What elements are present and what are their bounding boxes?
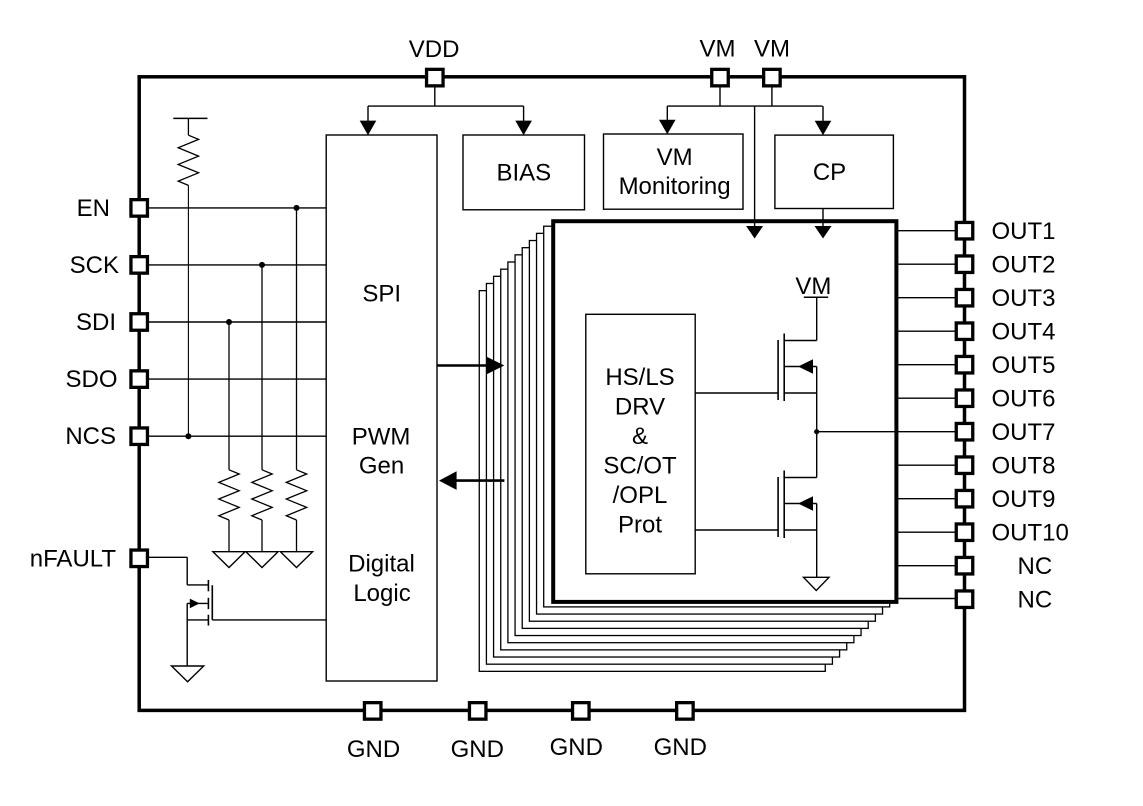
svg-text:SDI: SDI — [76, 309, 116, 336]
svg-text:Prot: Prot — [618, 512, 662, 539]
svg-text:OUT2: OUT2 — [992, 252, 1056, 279]
svg-text:OUT3: OUT3 — [992, 285, 1056, 312]
svg-text:VM: VM — [754, 36, 790, 63]
svg-text:VM: VM — [700, 36, 736, 63]
svg-text:OUT9: OUT9 — [992, 486, 1056, 513]
svg-text:DRV: DRV — [615, 394, 665, 421]
svg-text:Digital: Digital — [348, 550, 415, 577]
svg-text:NC: NC — [1018, 553, 1053, 580]
svg-text:OUT6: OUT6 — [992, 386, 1056, 413]
svg-text:BIAS: BIAS — [496, 159, 551, 186]
svg-text:nFAULT: nFAULT — [30, 545, 117, 572]
svg-text:CP: CP — [813, 159, 846, 186]
svg-text:SPI: SPI — [362, 281, 401, 308]
svg-text:OUT1: OUT1 — [992, 218, 1056, 245]
svg-text:GND: GND — [451, 736, 504, 763]
svg-text:HS/LS: HS/LS — [605, 364, 674, 391]
svg-text:Logic: Logic — [353, 580, 410, 607]
svg-text:OUT4: OUT4 — [992, 319, 1056, 346]
svg-text:SC/OT: SC/OT — [603, 453, 677, 480]
svg-text:VM: VM — [795, 273, 831, 300]
svg-text:EN: EN — [77, 195, 110, 222]
svg-text:OUT8: OUT8 — [992, 453, 1056, 480]
svg-text:NCS: NCS — [65, 423, 116, 450]
svg-text:OUT10: OUT10 — [992, 520, 1069, 547]
svg-text:VM: VM — [657, 144, 693, 171]
svg-text:OUT5: OUT5 — [992, 352, 1056, 379]
svg-text:Gen: Gen — [359, 453, 404, 480]
svg-text:PWM: PWM — [352, 424, 411, 451]
svg-text:SCK: SCK — [70, 252, 119, 279]
svg-text:GND: GND — [654, 734, 707, 761]
svg-text:&: & — [632, 423, 648, 450]
svg-text:OUT7: OUT7 — [992, 419, 1056, 446]
svg-text:GND: GND — [347, 736, 400, 763]
svg-text:/OPL: /OPL — [613, 482, 668, 509]
svg-text:VDD: VDD — [409, 36, 460, 63]
svg-text:SDO: SDO — [65, 366, 117, 393]
svg-text:NC: NC — [1018, 587, 1053, 614]
svg-text:GND: GND — [550, 734, 603, 761]
svg-text:Monitoring: Monitoring — [619, 173, 731, 200]
